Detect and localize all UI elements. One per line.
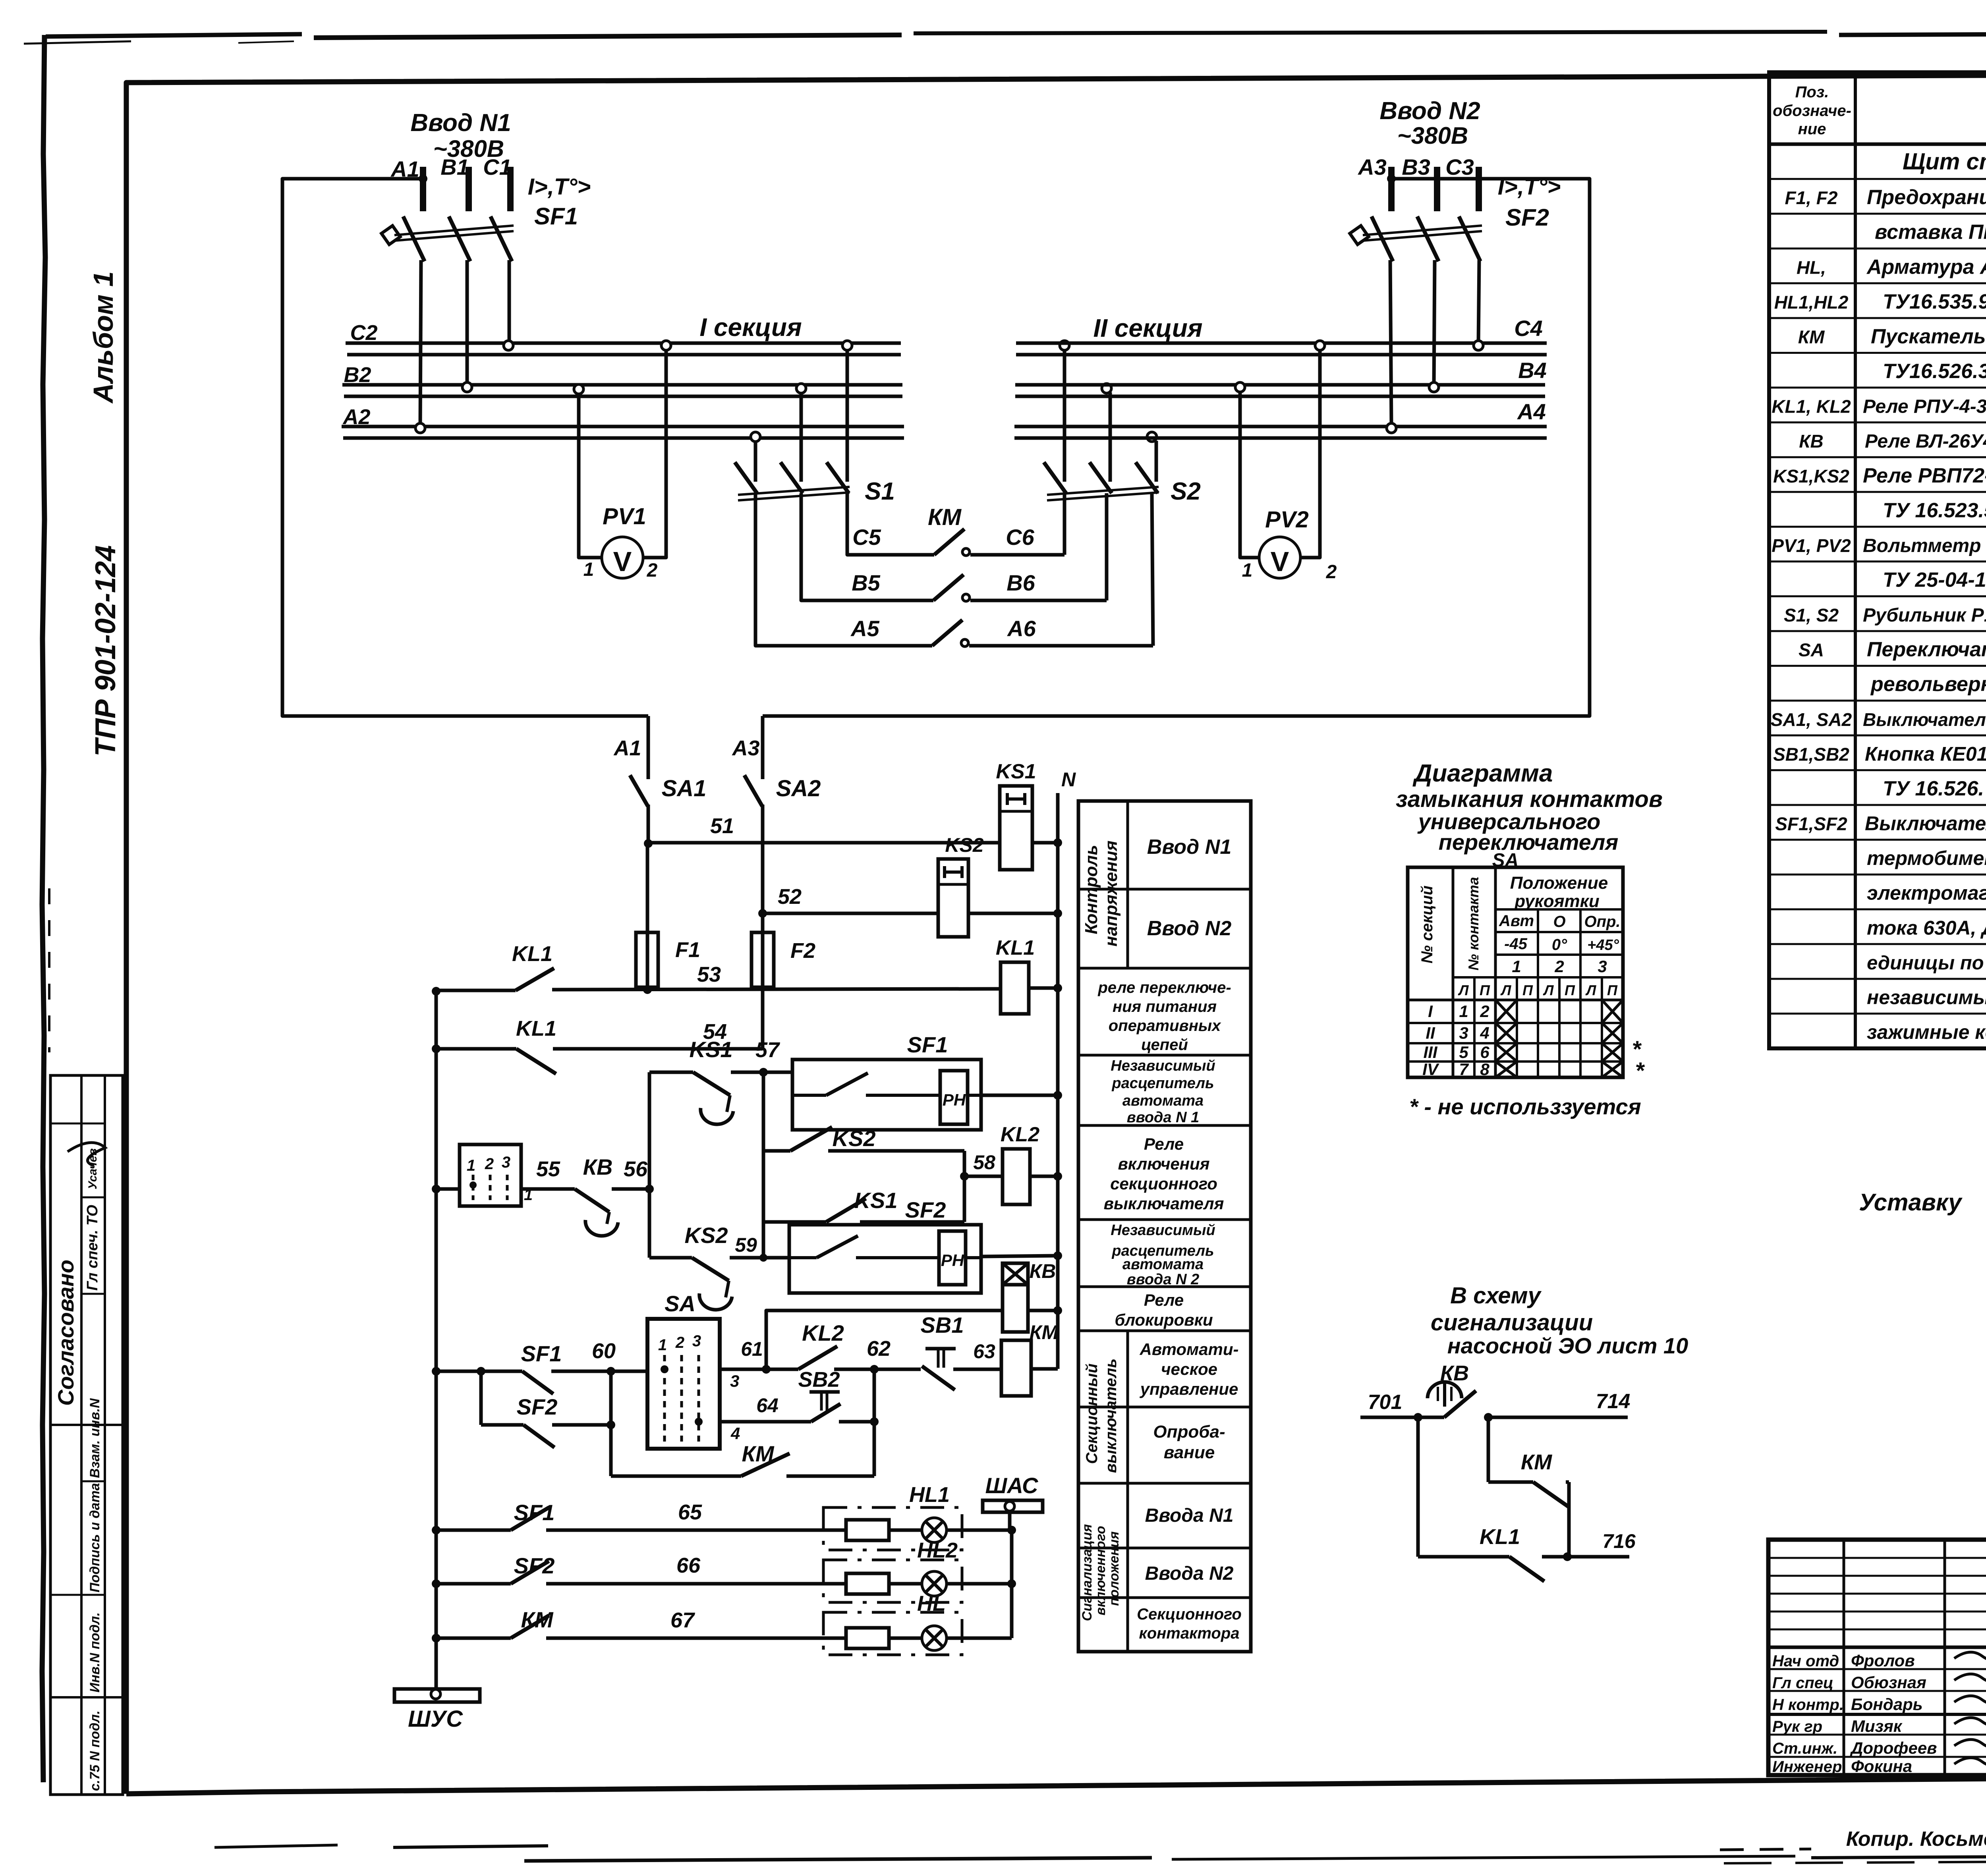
svg-text:Вольтметр Э377, предел измере: Вольтметр Э377, предел измерения 0-500В xyxy=(1863,535,1986,556)
junction 58 xyxy=(960,1172,969,1181)
svg-text:59: 59 xyxy=(735,1234,757,1256)
contactor KM tie contact C xyxy=(934,529,964,555)
svg-text:SA1: SA1 xyxy=(662,776,707,801)
svg-text:Независимый: Независимый xyxy=(1111,1222,1215,1239)
svg-text:Ввод N1: Ввод N1 xyxy=(1147,836,1232,859)
junction S1-A on A2 xyxy=(751,432,760,442)
svg-text:F2: F2 xyxy=(790,939,815,963)
wire 61 riser to KB xyxy=(766,1310,1003,1369)
svg-text:57: 57 xyxy=(755,1038,780,1062)
svg-text:КМ: КМ xyxy=(1521,1450,1552,1474)
svg-text:1: 1 xyxy=(1512,957,1521,976)
svg-text:2: 2 xyxy=(1326,562,1337,583)
wire row 57 xyxy=(649,1071,693,1074)
switch SA section 1 (box) xyxy=(436,1187,460,1191)
voltmeter PV2 xyxy=(1259,537,1300,578)
junction rail/66 xyxy=(432,1579,440,1588)
svg-text:Ввод N2: Ввод N2 xyxy=(1379,97,1480,125)
wire rows 65-67 into assemblies xyxy=(823,1529,846,1532)
svg-text:Реле РВП72-3222-00У4, ~220В, 5: Реле РВП72-3222-00У4, ~220В, 50Гц xyxy=(1863,464,1986,487)
svg-text:ТУ16.526.391-75: ТУ16.526.391-75 xyxy=(1883,360,1986,383)
junction 56 xyxy=(645,1185,654,1193)
resistor (HL2) xyxy=(846,1573,889,1594)
svg-text:4: 4 xyxy=(1480,1024,1489,1042)
svg-text:KS2: KS2 xyxy=(945,834,983,856)
wire SF1 box to N xyxy=(981,1094,1058,1097)
switch SA1 xyxy=(647,716,650,779)
svg-text:KS2: KS2 xyxy=(685,1223,728,1248)
svg-text:V: V xyxy=(1271,546,1289,577)
svg-text:сигнализации: сигнализации xyxy=(1431,1310,1593,1336)
junction 716 xyxy=(1563,1552,1572,1561)
svg-text:положения: положения xyxy=(1107,1531,1122,1606)
junction 60 xyxy=(607,1367,615,1376)
wire lamp HL2 to ШАС rail xyxy=(947,1582,1012,1586)
svg-text:А4: А4 xyxy=(1517,399,1546,424)
svg-text:S2: S2 xyxy=(1171,478,1201,505)
wire PV1 terminal 1 xyxy=(579,393,603,558)
svg-text:Ввод N2: Ввод N2 xyxy=(1147,917,1232,940)
contact KS1 (row 58 lower) xyxy=(826,1199,866,1222)
svg-text:С6: С6 xyxy=(1006,525,1034,550)
S1 pole C riser xyxy=(846,349,849,482)
svg-text:Копир. Косьменко: Копир. Косьменко xyxy=(1846,1828,1986,1851)
svg-text:А1: А1 xyxy=(613,736,641,760)
svg-text:KL1: KL1 xyxy=(1480,1525,1520,1549)
svg-text:Положение: Положение xyxy=(1510,873,1608,893)
svg-text:Гл спец: Гл спец xyxy=(1772,1674,1833,1692)
contact SF2 aux (lower branch) xyxy=(481,1423,524,1427)
svg-text:II секция: II секция xyxy=(1093,314,1202,342)
S2 pole B riser xyxy=(1109,392,1112,482)
svg-text:6: 6 xyxy=(1480,1043,1489,1062)
contact KS2 (delay opening, row 59) xyxy=(692,1258,729,1281)
svg-text:насосной ЭО лист 10: насосной ЭО лист 10 xyxy=(1447,1333,1688,1358)
svg-text:напряжения: напряжения xyxy=(1101,840,1121,946)
S2 pole B blade xyxy=(1090,462,1112,493)
svg-text:+45°: +45° xyxy=(1587,937,1619,953)
svg-text:F1, F2: F1, F2 xyxy=(1785,187,1838,208)
svg-text:Рук гр: Рук гр xyxy=(1772,1718,1822,1735)
lamp HL xyxy=(889,1637,922,1640)
svg-text:KS1: KS1 xyxy=(854,1188,898,1213)
svg-text:П: П xyxy=(1565,982,1575,998)
svg-text:№ контакта: № контакта xyxy=(1465,877,1482,971)
svg-text:КМ: КМ xyxy=(1030,1321,1059,1343)
wire rail to SF branch xyxy=(436,1370,481,1373)
svg-text:РН: РН xyxy=(941,1251,965,1270)
svg-text:Согласовано: Согласовано xyxy=(53,1260,78,1406)
breaker SF1 release box xyxy=(763,1071,792,1074)
svg-text:А3: А3 xyxy=(731,736,759,760)
svg-text:В схему: В схему xyxy=(1450,1283,1542,1309)
svg-text:SB1: SB1 xyxy=(921,1312,964,1338)
wire PV1 terminal 2 xyxy=(642,349,666,558)
junction SF1-C on C2 xyxy=(504,341,513,350)
svg-text:65: 65 xyxy=(678,1500,702,1524)
svg-text:701: 701 xyxy=(1368,1391,1403,1414)
svg-text:П: П xyxy=(1480,982,1490,998)
contact KL1 (row 54) xyxy=(516,1049,556,1074)
junction SF branch xyxy=(477,1367,485,1376)
wire C5 xyxy=(847,552,934,555)
svg-text:А3: А3 xyxy=(1357,154,1387,179)
svg-text:автомата: автомата xyxy=(1122,1092,1204,1109)
svg-text:KL2: KL2 xyxy=(802,1320,844,1345)
title block frame xyxy=(1768,1540,1986,1775)
svg-text:КВ: КВ xyxy=(1799,431,1824,452)
svg-text:Выключатель ПВ2-10, исп.1 ОСТ: Выключатель ПВ2-10, исп.1 ОСТ16.0526.001… xyxy=(1863,709,1986,730)
svg-text:714: 714 xyxy=(1596,1390,1631,1413)
svg-text:SA: SA xyxy=(1799,640,1824,660)
svg-text:зажимные колодки N 16 ТУ16.5: зажимные колодки N 16 ТУ16.522.028-74 xyxy=(1867,1021,1986,1043)
svg-text:I секция: I секция xyxy=(699,313,802,342)
svg-text:обозначе-: обозначе- xyxy=(1773,102,1851,120)
junction 62 xyxy=(870,1365,879,1374)
svg-text:В3: В3 xyxy=(1402,154,1430,179)
svg-text:KL2: KL2 xyxy=(1001,1123,1039,1146)
wire KS2 coil to N xyxy=(968,912,1058,915)
junction 701 xyxy=(1414,1413,1422,1422)
wire row KS1 to 58 xyxy=(763,1220,826,1224)
svg-text:Секционного: Секционного xyxy=(1137,1606,1242,1623)
svg-text:SF2: SF2 xyxy=(514,1553,555,1578)
svg-text:ТУ 25-04-1058-74: ТУ 25-04-1058-74 xyxy=(1883,569,1986,592)
SF2 pole A terminal stub xyxy=(1388,167,1395,211)
svg-text:61: 61 xyxy=(741,1338,763,1360)
svg-text:КМ: КМ xyxy=(928,504,962,530)
parts table frame xyxy=(1769,72,1986,1048)
junction S1-B on B2 xyxy=(796,384,806,393)
svg-text:вставка ПВД1-16УЗ, ТУ16 522.0: вставка ПВД1-16УЗ, ТУ16 522.011-74 xyxy=(1875,221,1986,244)
svg-text:KS1,KS2: KS1,KS2 xyxy=(1773,466,1849,486)
svg-text:SB1,SB2: SB1,SB2 xyxy=(1773,744,1849,764)
contact КМ (row 67) xyxy=(436,1637,511,1640)
svg-text:1: 1 xyxy=(467,1157,475,1174)
svg-text:63: 63 xyxy=(973,1340,995,1363)
svg-text:Секционный: Секционный xyxy=(1083,1363,1101,1464)
lamp HL2 xyxy=(889,1582,922,1586)
svg-text:2: 2 xyxy=(675,1334,684,1351)
relay coil KB (with indicator) xyxy=(1003,1263,1028,1285)
wire S1-A down xyxy=(754,493,757,646)
SF2 pole C contact blade xyxy=(1459,216,1480,261)
SA diagram table xyxy=(1408,867,1623,1077)
svg-text:F1: F1 xyxy=(675,938,700,962)
junction SF1-A on A2 xyxy=(415,423,425,433)
svg-text:А5: А5 xyxy=(850,616,879,641)
svg-text:1: 1 xyxy=(658,1336,667,1354)
svg-text:Альбом 1: Альбом 1 xyxy=(88,271,119,404)
wire PV2 terminal 1 xyxy=(1240,391,1260,558)
S1 pole B blade xyxy=(780,462,803,493)
svg-text:ТУ 16.526. 407-76: ТУ 16.526. 407-76 xyxy=(1883,777,1986,800)
svg-text:КВ: КВ xyxy=(583,1154,613,1179)
bus B4 xyxy=(1015,383,1545,387)
wire node 52 xyxy=(763,912,938,915)
wire node 714 xyxy=(1487,1416,1628,1419)
SF1 pole B terminal stub xyxy=(466,167,472,211)
junction SF2-A on A4 xyxy=(1387,423,1396,433)
svg-text:тока 630А, Дополнительные сб: тока 630А, Дополнительные сборочные xyxy=(1867,917,1986,939)
pushbutton SB2 (start) xyxy=(809,1390,840,1394)
svg-text:В6: В6 xyxy=(1007,570,1035,595)
wire SF2 pole A down to bus A4 xyxy=(1390,260,1391,425)
junction rail/67 xyxy=(432,1634,440,1642)
junction PV1-1 on B2 xyxy=(574,384,583,394)
junction N/KS2 xyxy=(1053,909,1062,918)
svg-text:8: 8 xyxy=(1480,1060,1489,1079)
S1 pole B riser xyxy=(800,392,803,482)
S1 crossbar xyxy=(738,487,850,495)
junction S2-C on C4 xyxy=(1060,341,1069,350)
svg-text:ТУ 16.523.534-74: ТУ 16.523.534-74 xyxy=(1883,499,1986,522)
SF1 pole C contact blade xyxy=(491,216,512,261)
release coil РН (SF2) xyxy=(939,1231,966,1285)
wire node 51 xyxy=(648,841,1000,845)
svg-text:5: 5 xyxy=(1459,1043,1468,1062)
svg-text:PV2: PV2 xyxy=(1265,507,1309,533)
wire row 59 xyxy=(649,1256,692,1260)
svg-text:KL1: KL1 xyxy=(512,942,553,966)
svg-text:SF1: SF1 xyxy=(534,203,578,230)
svg-text:HL: HL xyxy=(917,1592,946,1615)
svg-text:электромагнитный расцепитель: электромагнитный расцепитель и уставка xyxy=(1867,882,1986,904)
sheet outer edge bottom xyxy=(214,1845,338,1847)
wire S1-C down xyxy=(846,493,849,555)
svg-text:PV1, PV2: PV1, PV2 xyxy=(1772,535,1851,556)
svg-text:SF2: SF2 xyxy=(517,1394,558,1419)
contact SF1 (row 65) xyxy=(436,1529,511,1532)
junction N/KS1 xyxy=(1053,838,1062,847)
wire SF2 box to N xyxy=(981,1256,1058,1256)
junction 52 xyxy=(758,909,767,918)
relay coil KL2 xyxy=(964,1175,1003,1178)
svg-text:52: 52 xyxy=(778,885,802,909)
svg-text:ческое: ческое xyxy=(1161,1360,1217,1378)
svg-text:I>,T°>: I>,T°> xyxy=(528,174,591,200)
svg-text:А1: А1 xyxy=(390,156,419,181)
svg-text:ния питания: ния питания xyxy=(1113,998,1217,1015)
junction ШАС/66 xyxy=(1007,1579,1016,1588)
svg-text:Реле: Реле xyxy=(1144,1291,1184,1309)
svg-text:2: 2 xyxy=(1480,1002,1489,1021)
wire S2-B down to B6 xyxy=(1105,493,1109,600)
svg-text:ШАС: ШАС xyxy=(985,1473,1039,1498)
lamp HL1 xyxy=(889,1529,922,1532)
svg-text:Сигнализация: Сигнализация xyxy=(1080,1524,1095,1621)
junction N/57 xyxy=(1053,1091,1062,1100)
S1 pole A riser xyxy=(754,441,757,482)
svg-text:1: 1 xyxy=(1242,560,1253,581)
svg-text:S1: S1 xyxy=(865,478,895,505)
wire KL1 coil to N xyxy=(1029,986,1058,990)
svg-text:независимый расцепитель 220В: независимый расцепитель 220В, 50Гц, xyxy=(1867,986,1986,1008)
svg-text:ТПР 901-02-124: ТПР 901-02-124 xyxy=(90,545,122,757)
contactor KM tie contact A xyxy=(932,620,962,646)
svg-text:II: II xyxy=(1426,1024,1435,1042)
wire S1-B down xyxy=(800,493,803,600)
wire row KS2 to 58 xyxy=(763,1149,790,1153)
svg-text:Инженер: Инженер xyxy=(1772,1758,1842,1776)
svg-text:С4: С4 xyxy=(1514,316,1543,341)
svg-text:Арматура АС 1201 1У2, ~220В: Арматура АС 1201 1У2, ~220В xyxy=(1866,255,1986,278)
S2 pole C riser xyxy=(1155,441,1158,482)
svg-text:Нач отд: Нач отд xyxy=(1772,1652,1839,1670)
svg-text:Подпись и дата: Подпись и дата xyxy=(87,1483,102,1592)
svg-text:ТУ16.535.930-76: ТУ16.535.930-76 xyxy=(1883,290,1986,313)
svg-text:Ввода N2: Ввода N2 xyxy=(1145,1563,1234,1584)
svg-text:автомата: автомата xyxy=(1122,1256,1204,1273)
svg-text:В5: В5 xyxy=(852,570,880,595)
switch SA2 xyxy=(761,716,765,779)
svg-text:управление: управление xyxy=(1140,1380,1238,1398)
svg-text:КВ: КВ xyxy=(1030,1260,1056,1282)
relay coil KL1 xyxy=(1001,962,1029,1014)
wire S2-A down to A6 xyxy=(1152,493,1153,646)
svg-text:А2: А2 xyxy=(342,405,370,429)
wire lamp HL to ШАС rail xyxy=(947,1637,1012,1640)
junction N/KL1 xyxy=(1053,984,1062,992)
svg-text:SF1: SF1 xyxy=(907,1032,948,1057)
svg-text:Опроба-: Опроба- xyxy=(1153,1422,1225,1442)
svg-text:HL2: HL2 xyxy=(917,1538,958,1562)
svg-text:Реле РПУ-4-368, 220В, 50Гц, ТУ: Реле РПУ-4-368, 220В, 50Гц, ТУ16 523534-… xyxy=(1863,396,1986,417)
svg-text:блокировки: блокировки xyxy=(1115,1310,1213,1329)
wire 58 vertical xyxy=(963,1151,966,1222)
svg-text:оперативных: оперативных xyxy=(1109,1017,1221,1035)
svg-text:О: О xyxy=(1553,913,1565,930)
svg-text:Реле ВЛ-26У4, 220В, 50Гц, ТУ 1: Реле ВЛ-26У4, 220В, 50Гц, ТУ 16 523 528-… xyxy=(1865,431,1986,452)
wire: A3 feeder to right outline xyxy=(763,179,1590,716)
wire KM coil to N xyxy=(1031,1367,1058,1371)
junction rail/54 xyxy=(432,1044,440,1053)
svg-text:2: 2 xyxy=(485,1155,494,1173)
svg-text:включения: включения xyxy=(1118,1154,1209,1173)
svg-text:0°: 0° xyxy=(1552,936,1567,953)
svg-text:HL1: HL1 xyxy=(909,1483,950,1507)
junction SF1-B on B2 xyxy=(462,382,472,392)
wire B5 xyxy=(801,598,933,600)
wire KS1 coil to N xyxy=(1032,841,1058,845)
junction F1/53 xyxy=(643,985,652,994)
svg-text:Бондарь: Бондарь xyxy=(1851,1695,1923,1714)
svg-text:I: I xyxy=(1428,1002,1433,1021)
svg-text:Инв.N подл.: Инв.N подл. xyxy=(87,1612,102,1693)
SF2 pole B contact blade xyxy=(1417,216,1439,261)
sheet outer edge left xyxy=(42,35,45,1782)
wire SF1 pole A down to bus A2 xyxy=(420,260,421,425)
svg-text:Фролов: Фролов xyxy=(1851,1651,1915,1670)
bus C4 (section II) xyxy=(1016,342,1547,345)
SF2 trip crossbar xyxy=(1363,226,1482,235)
junction 61 xyxy=(762,1365,771,1374)
wire 714 riser xyxy=(1487,1417,1490,1482)
junction rail/65 xyxy=(432,1526,440,1534)
svg-text:3: 3 xyxy=(502,1154,510,1171)
svg-text:В4: В4 xyxy=(1518,358,1547,383)
junction PV1-2 on C2 xyxy=(661,341,671,350)
svg-text:* - не использзуется: * - не использзуется xyxy=(1409,1094,1641,1119)
S2 pole A riser xyxy=(1063,349,1066,482)
svg-text:Переключатель УП5313-С86, рук: Переключатель УП5313-С86, рукоятка xyxy=(1867,638,1986,661)
contact KS2 (row 58 upper) xyxy=(790,1127,832,1151)
junction rail/55 xyxy=(432,1185,440,1193)
bus B2 xyxy=(342,383,902,387)
svg-text:Контроль: Контроль xyxy=(1082,845,1101,934)
svg-text:HL1,HL2: HL1,HL2 xyxy=(1774,292,1849,313)
wire 57 riser down xyxy=(762,1072,765,1258)
relay coil KS1 xyxy=(1000,786,1032,870)
S2 crossbar xyxy=(1047,487,1159,495)
sheet outer edge top xyxy=(46,34,302,37)
svg-text:64: 64 xyxy=(756,1394,779,1417)
junction N/58 xyxy=(1053,1172,1062,1181)
svg-text:А6: А6 xyxy=(1007,616,1036,641)
contact KS1 (delay opening) xyxy=(693,1072,730,1095)
svg-text:SF2: SF2 xyxy=(905,1197,946,1222)
SF2 pole B terminal stub xyxy=(1434,167,1440,211)
svg-text:Диаграмма: Диаграмма xyxy=(1412,760,1553,787)
svg-text:1: 1 xyxy=(1459,1002,1468,1021)
svg-text:Л: Л xyxy=(1543,982,1554,998)
svg-text:П: П xyxy=(1607,982,1618,998)
lamp assembly HL2 boundary xyxy=(823,1560,962,1602)
svg-text:3: 3 xyxy=(692,1332,701,1350)
svg-text:SF1,SF2: SF1,SF2 xyxy=(1775,814,1847,834)
svg-text:Ввод N1: Ввод N1 xyxy=(410,109,511,137)
svg-text:С3: С3 xyxy=(1445,154,1474,179)
left stamp strip table xyxy=(50,1075,123,1795)
svg-text:Л: Л xyxy=(1585,982,1597,998)
svg-text:КМ: КМ xyxy=(521,1607,553,1632)
svg-text:Реле: Реле xyxy=(1144,1135,1184,1153)
svg-text:включенного: включенного xyxy=(1093,1526,1108,1615)
svg-text:Автомати-: Автомати- xyxy=(1139,1340,1238,1359)
svg-text:термобиметаллический расцепит: термобиметаллический расцепитель 144А xyxy=(1867,847,1986,869)
bus A2 xyxy=(342,425,904,428)
svg-text:S1, S2: S1, S2 xyxy=(1784,605,1839,625)
junction rail/67 xyxy=(432,1634,440,1642)
SF1 trip crossbar xyxy=(394,226,514,235)
breaker SF2 release box xyxy=(789,1225,981,1293)
wire S2-C down to C6 xyxy=(1063,493,1066,555)
svg-text:3: 3 xyxy=(1459,1024,1468,1042)
wire KL2 coil to N xyxy=(1030,1175,1058,1178)
svg-text:V: V xyxy=(613,546,632,577)
fuse F2 xyxy=(761,913,765,1049)
contactor KM tie contact B xyxy=(933,575,964,600)
lamp assembly HL1 boundary xyxy=(823,1507,962,1550)
wire node 53 xyxy=(436,989,516,992)
svg-text:60: 60 xyxy=(592,1339,616,1363)
junction PV2-1 on B4 xyxy=(1235,382,1245,392)
svg-text:HL,: HL, xyxy=(1797,257,1826,278)
wire PV2 terminal 2 xyxy=(1300,349,1320,558)
svg-text:*: * xyxy=(1636,1058,1645,1084)
contact KB (time closing) xyxy=(575,1189,609,1212)
junction rail/row60 xyxy=(432,1367,440,1376)
svg-text:66: 66 xyxy=(676,1554,701,1577)
junction 59 xyxy=(759,1254,767,1262)
svg-text:58: 58 xyxy=(973,1151,995,1173)
svg-text:вание: вание xyxy=(1164,1443,1215,1462)
wire node 64 xyxy=(720,1420,811,1424)
svg-text:Предохранитель ПРС-20УЗ-П, пл: Предохранитель ПРС-20УЗ-П, плавкая xyxy=(1867,186,1986,209)
resistor (HL1) xyxy=(846,1520,889,1540)
contact KL1 (mini) xyxy=(1418,1555,1509,1559)
junction 62/64 xyxy=(870,1417,879,1426)
